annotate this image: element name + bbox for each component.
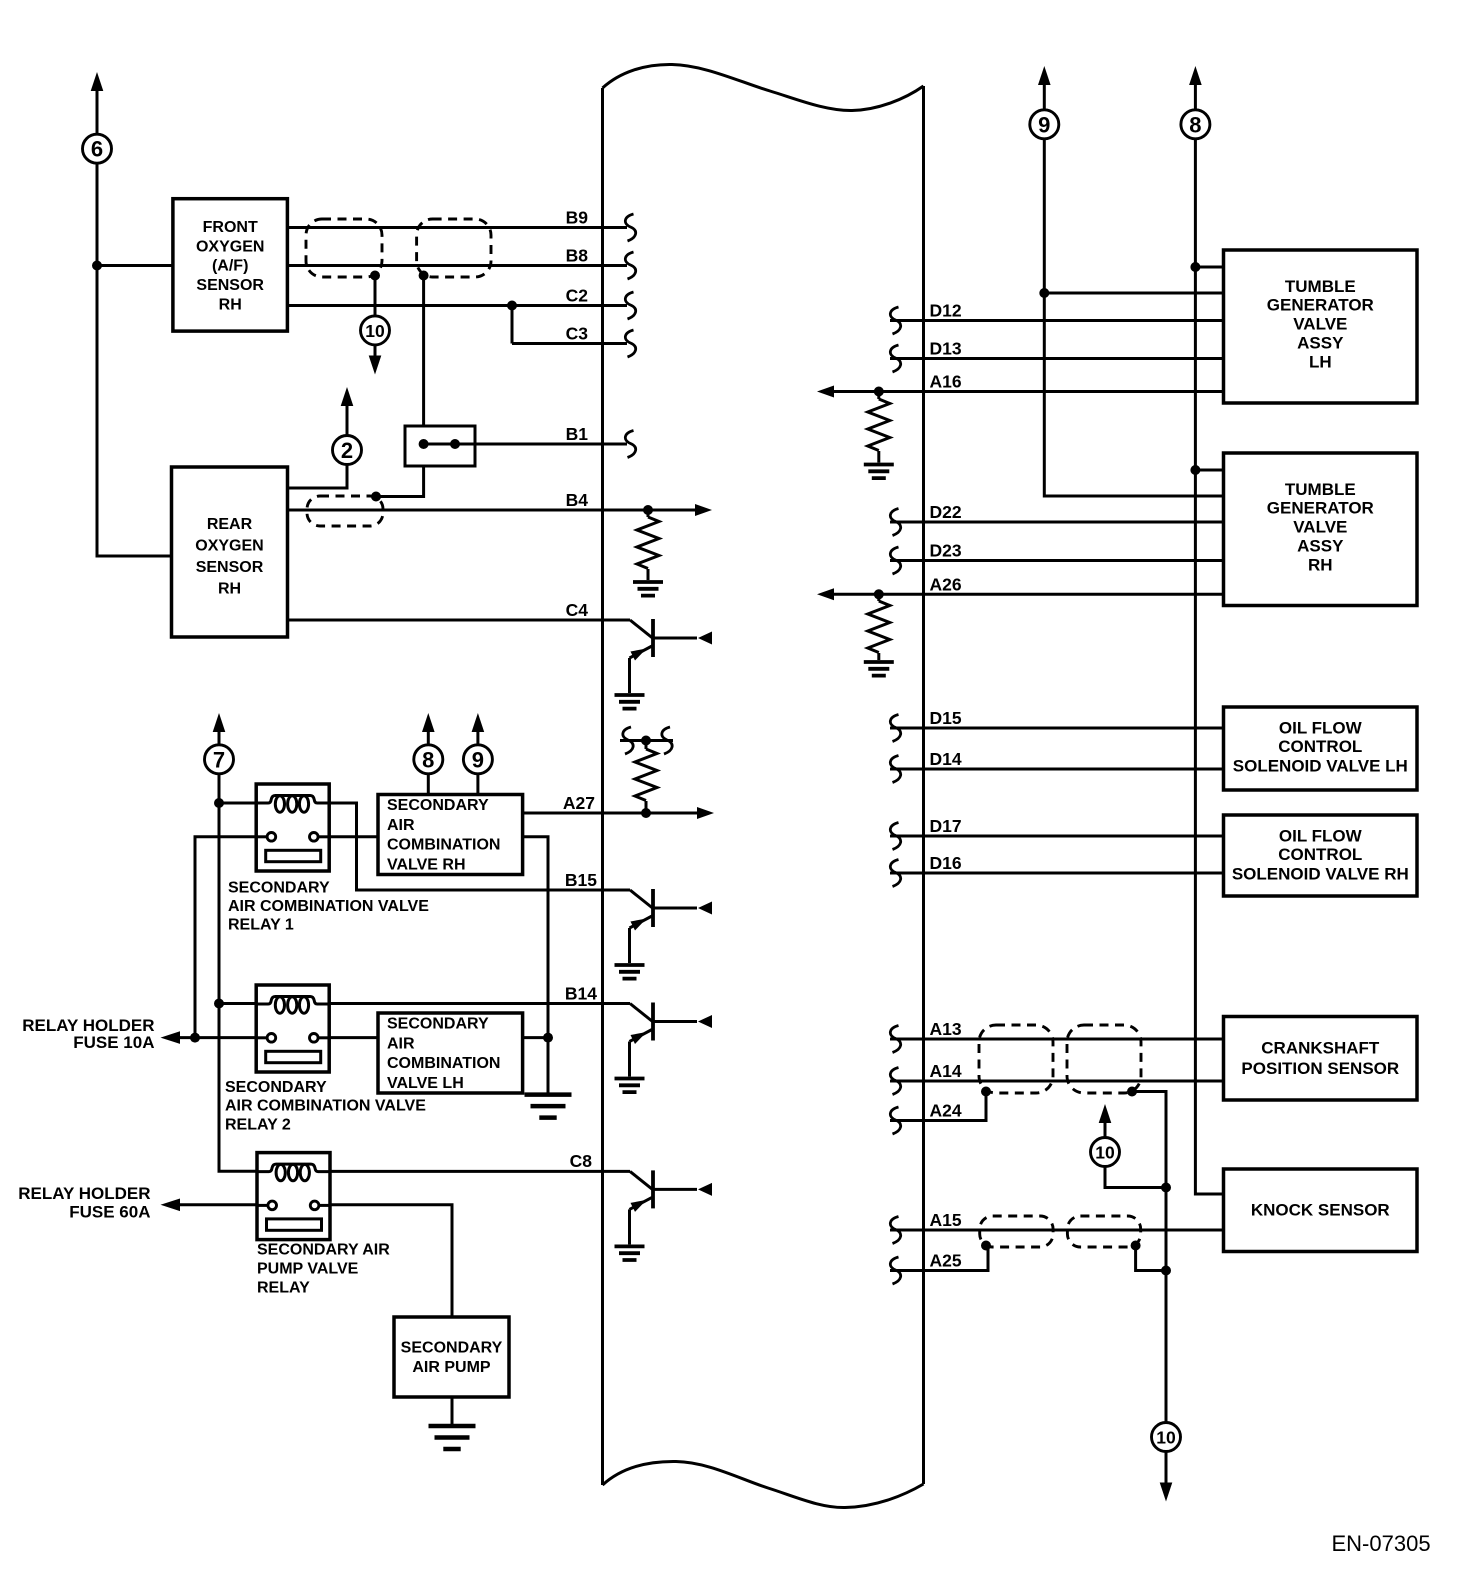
wire D14 bbox=[890, 768, 1224, 771]
wire A15 shield to drain line bbox=[1136, 1246, 1166, 1271]
svg-text:AIR COMBINATION VALVE: AIR COMBINATION VALVE bbox=[228, 898, 429, 915]
wire circle 9 to tumble valves bbox=[1044, 139, 1223, 496]
svg-text:D17: D17 bbox=[930, 816, 962, 836]
svg-text:VALVE RH: VALVE RH bbox=[387, 857, 466, 874]
reference circle 8 right bbox=[1181, 110, 1210, 139]
shield ellipse 2 over A15 bbox=[1067, 1216, 1140, 1247]
shield ellipse 1 over A13/A14 bbox=[979, 1025, 1053, 1093]
arrow to sheet 6 bbox=[91, 72, 104, 91]
resistor B4 pull-down bbox=[637, 517, 659, 569]
svg-text:B9: B9 bbox=[566, 208, 589, 228]
component box SECONDARY AIR PUMP bbox=[394, 1317, 509, 1397]
wire fuse 60A to relay 3 contact bbox=[174, 1203, 257, 1206]
svg-text:OIL FLOW: OIL FLOW bbox=[1279, 718, 1363, 737]
reference circle 8 left bbox=[414, 745, 443, 774]
ground B4 resistor bbox=[633, 582, 663, 596]
svg-text:TUMBLE: TUMBLE bbox=[1285, 277, 1356, 296]
svg-text:(A/F): (A/F) bbox=[212, 258, 248, 275]
svg-text:CONTROL: CONTROL bbox=[1278, 845, 1362, 864]
ground A26 resistor bbox=[864, 662, 894, 676]
ECM strip wavy top edge bbox=[603, 64, 924, 110]
wire A24 to shield bbox=[890, 1092, 986, 1121]
svg-text:10: 10 bbox=[1156, 1427, 1176, 1447]
wire circle 8 to valve RH bbox=[427, 774, 430, 795]
resistor A26 pull-down bbox=[868, 601, 890, 653]
wire relay 3 contact to air pump bbox=[330, 1205, 452, 1317]
svg-text:CRANKSHAFT: CRANKSHAFT bbox=[1261, 1038, 1380, 1057]
ECM connector strip right edge bbox=[922, 86, 925, 1484]
break symbol A25 bbox=[890, 1257, 900, 1284]
svg-text:B1: B1 bbox=[566, 424, 589, 444]
arrow A16 continues bbox=[817, 386, 834, 398]
shield ellipse 1 over B9/B8 bbox=[306, 219, 382, 277]
svg-text:RELAY 1: RELAY 1 bbox=[228, 917, 294, 934]
wire relay 1 contact to valve RH bbox=[329, 835, 378, 838]
svg-text:RH: RH bbox=[219, 296, 242, 313]
wire valve RH ground return bbox=[523, 837, 548, 1093]
junction A26 resistor bbox=[874, 589, 884, 599]
internal supply rail bbox=[620, 739, 673, 742]
svg-text:A27: A27 bbox=[563, 793, 595, 813]
wire D16 bbox=[890, 872, 1224, 875]
wire A14 bbox=[890, 1080, 1224, 1083]
break symbol D12 bbox=[890, 307, 900, 334]
wire to relay 1 coil bbox=[219, 802, 256, 805]
wire above circle 9 right bbox=[1043, 83, 1046, 110]
shield 1 drain junction bbox=[370, 271, 380, 281]
arrow to relay holder fuse 60A bbox=[161, 1199, 181, 1212]
svg-text:REAR: REAR bbox=[207, 516, 253, 533]
break symbol C3 bbox=[625, 330, 635, 357]
junction shield drain tap bbox=[1161, 1183, 1171, 1193]
wire shield 2 drain to joint connector bbox=[422, 276, 425, 427]
svg-text:9: 9 bbox=[472, 747, 484, 772]
svg-text:A26: A26 bbox=[930, 574, 962, 594]
svg-text:SOLENOID VALVE LH: SOLENOID VALVE LH bbox=[1233, 757, 1408, 776]
shield drain junction A15 right bbox=[1131, 1241, 1141, 1251]
junction front oxygen feed bbox=[92, 261, 102, 271]
reference circle 7 bbox=[205, 745, 234, 774]
break symbol D22 bbox=[890, 509, 900, 536]
wire D23 bbox=[890, 559, 1224, 562]
svg-text:SECONDARY: SECONDARY bbox=[225, 1079, 327, 1096]
ECM connector strip left edge bbox=[601, 88, 604, 1485]
break symbol A15 bbox=[890, 1217, 900, 1244]
transistor driver B15 bbox=[603, 889, 713, 979]
arrow A27 continues bbox=[697, 807, 714, 819]
reference circle 9 right bbox=[1030, 110, 1059, 139]
shield ellipse over B4 bbox=[307, 496, 383, 526]
svg-text:A13: A13 bbox=[930, 1019, 962, 1039]
ground valves bbox=[525, 1095, 572, 1118]
svg-text:C2: C2 bbox=[566, 286, 589, 306]
svg-text:C4: C4 bbox=[566, 600, 589, 620]
svg-text:D15: D15 bbox=[930, 708, 962, 728]
break symbol C2 bbox=[625, 292, 635, 319]
reference circle 10 (shield ground) bbox=[361, 316, 390, 345]
wire A25 to shield bbox=[890, 1246, 988, 1271]
wire D17 bbox=[890, 835, 1224, 838]
shield ellipse 2 over B9/B8 bbox=[417, 219, 491, 277]
junction shield drain A15 bbox=[1161, 1266, 1171, 1276]
break symbol D14 bbox=[890, 756, 900, 783]
wire to front oxygen sensor left pin bbox=[97, 264, 173, 267]
reference circle 10 mid bbox=[1091, 1138, 1120, 1167]
junction A27 resistor bbox=[641, 808, 651, 818]
shield drain junction A15 left bbox=[981, 1241, 991, 1251]
wire circle6 to rear oxygen sensor bbox=[97, 163, 172, 556]
svg-text:D12: D12 bbox=[930, 301, 962, 321]
wire above circle 8 bbox=[427, 730, 430, 745]
wire C3 bbox=[512, 342, 627, 345]
wire to relay 2 coil bbox=[219, 1002, 256, 1005]
wire rear oxygen to circle 2 bbox=[288, 464, 348, 488]
svg-text:8: 8 bbox=[1189, 112, 1201, 137]
svg-text:D23: D23 bbox=[930, 541, 962, 561]
svg-text:OXYGEN: OXYGEN bbox=[196, 238, 264, 255]
junction tumble RH feed 8 bbox=[1190, 465, 1200, 475]
break symbol D16 bbox=[890, 860, 900, 887]
wire A27 bbox=[523, 812, 700, 815]
joint connector dot left bbox=[419, 439, 429, 449]
svg-text:FUSE 60A: FUSE 60A bbox=[69, 1203, 150, 1222]
ECM strip wavy bottom edge bbox=[603, 1461, 924, 1507]
component box TUMBLE GENERATOR VALVE ASSY RH bbox=[1224, 453, 1418, 606]
svg-text:B4: B4 bbox=[566, 490, 589, 510]
joint connector dot right bbox=[450, 439, 460, 449]
break symbol D13 bbox=[890, 345, 900, 372]
break symbol D15 bbox=[890, 715, 900, 742]
wire A26 bbox=[831, 593, 1224, 596]
svg-text:10: 10 bbox=[365, 321, 385, 341]
svg-text:AIR: AIR bbox=[387, 1035, 415, 1052]
svg-text:A24: A24 bbox=[930, 1101, 962, 1121]
junction rail bbox=[641, 736, 651, 746]
svg-text:ASSY: ASSY bbox=[1297, 334, 1344, 353]
joint connector box B1 bbox=[405, 426, 475, 466]
svg-text:OIL FLOW: OIL FLOW bbox=[1279, 826, 1363, 845]
svg-text:C3: C3 bbox=[566, 324, 589, 344]
svg-text:RH: RH bbox=[218, 580, 241, 597]
wire above circle 7 bbox=[218, 730, 221, 745]
wire C2 to C3 bbox=[511, 306, 514, 344]
wire below circle 10 bbox=[374, 345, 377, 361]
wire B4 bbox=[288, 509, 699, 512]
svg-text:VALVE LH: VALVE LH bbox=[387, 1075, 464, 1092]
wire D12 bbox=[890, 319, 1224, 322]
svg-text:GENERATOR: GENERATOR bbox=[1267, 296, 1374, 315]
wire to tumble LH pin 2 bbox=[1044, 292, 1223, 295]
wire relay 1 contact to fuse 10A bbox=[195, 837, 256, 1038]
svg-text:A25: A25 bbox=[930, 1251, 962, 1271]
transistor driver B14 bbox=[603, 1003, 713, 1093]
shield drain junction A13/A14 right bbox=[1127, 1087, 1137, 1097]
stub resistor to A27 bbox=[645, 801, 648, 813]
reference circle 2 bbox=[333, 436, 362, 465]
B4 shield drain junction bbox=[371, 492, 381, 502]
svg-text:PUMP VALVE: PUMP VALVE bbox=[257, 1261, 359, 1278]
relay SECONDARY AIR COMBINATION VALVE RELAY 1 bbox=[256, 784, 329, 871]
wire A16 bbox=[831, 390, 1224, 393]
stub A26 resistor bbox=[877, 594, 880, 601]
resistor A16 pull-down bbox=[868, 399, 890, 451]
stub A16 resistor to ground bbox=[877, 451, 880, 463]
svg-text:8: 8 bbox=[422, 747, 434, 772]
arrow B4 continues bbox=[695, 504, 712, 516]
svg-text:FRONT: FRONT bbox=[203, 219, 258, 236]
stub rail resistor bbox=[645, 741, 648, 750]
reference circle 6 bbox=[83, 134, 112, 163]
wire to tumble RH pin 1 bbox=[1195, 469, 1223, 472]
break symbol B1 bbox=[625, 431, 635, 458]
svg-text:RELAY 2: RELAY 2 bbox=[225, 1116, 291, 1133]
svg-text:VALVE: VALVE bbox=[1293, 518, 1347, 537]
svg-text:C8: C8 bbox=[570, 1151, 593, 1171]
svg-text:AIR: AIR bbox=[387, 817, 415, 834]
break symbol B8 bbox=[625, 252, 635, 279]
svg-text:10: 10 bbox=[1095, 1142, 1115, 1162]
component box OIL FLOW CONTROL SOLENOID VALVE RH bbox=[1224, 815, 1418, 896]
break symbol D23 bbox=[890, 547, 900, 574]
shield drain junction A13/A14 left bbox=[981, 1087, 991, 1097]
svg-text:A14: A14 bbox=[930, 1061, 962, 1081]
svg-text:TUMBLE: TUMBLE bbox=[1285, 480, 1356, 499]
arrow to sheet 10 bbox=[369, 356, 382, 375]
junction fuse 10A feed bbox=[190, 1033, 200, 1043]
shield ellipse 1 over A15 bbox=[980, 1216, 1053, 1247]
component box FRONT OXYGEN (A/F) SENSOR RH bbox=[173, 199, 288, 331]
junction tumble LH feed 8 bbox=[1190, 262, 1200, 272]
stub A16 resistor bbox=[877, 392, 880, 400]
break symbol A24 bbox=[890, 1107, 900, 1134]
arrow to sheet 8 right bbox=[1189, 66, 1202, 85]
wire air pump to ground bbox=[451, 1397, 454, 1424]
transistor driver C4 bbox=[603, 619, 713, 709]
component box SECONDARY AIR COMBINATION VALVE RH bbox=[378, 795, 523, 875]
svg-text:SOLENOID VALVE RH: SOLENOID VALVE RH bbox=[1232, 865, 1409, 884]
wire relay 3 coil to C8 bbox=[330, 1170, 603, 1173]
break symbol rail right bbox=[662, 727, 672, 754]
arrow to sheet 7 bbox=[213, 713, 226, 732]
stub B4 resistor to ground bbox=[647, 569, 650, 580]
wire A15 bbox=[890, 1229, 1224, 1232]
wire fuse 10A to relay 2 contact bbox=[174, 1036, 256, 1039]
arrow A26 continues bbox=[817, 588, 834, 600]
svg-text:RELAY HOLDER: RELAY HOLDER bbox=[18, 1184, 150, 1203]
svg-text:SECONDARY: SECONDARY bbox=[228, 879, 330, 896]
svg-text:2: 2 bbox=[341, 438, 353, 463]
svg-text:B14: B14 bbox=[565, 984, 597, 1004]
relay SECONDARY AIR PUMP VALVE RELAY bbox=[257, 1153, 330, 1240]
component box SECONDARY AIR COMBINATION VALVE LH bbox=[378, 1013, 523, 1093]
wire shield to circle 10 bottom bbox=[1132, 1092, 1166, 1423]
svg-text:SENSOR: SENSOR bbox=[196, 559, 264, 576]
svg-text:SENSOR: SENSOR bbox=[196, 277, 264, 294]
wire relay 2 coil to B14 bbox=[329, 1002, 602, 1005]
svg-text:D14: D14 bbox=[930, 749, 962, 769]
wire inside joint connector bbox=[424, 443, 455, 446]
wire A13 bbox=[890, 1038, 1224, 1041]
junction A16 resistor bbox=[874, 387, 884, 397]
svg-text:OXYGEN: OXYGEN bbox=[195, 538, 263, 555]
wire circle 8 to knock sensor bbox=[1195, 139, 1223, 1194]
svg-text:B8: B8 bbox=[566, 246, 589, 266]
wire C2 bbox=[287, 304, 627, 307]
stub A26 resistor to ground bbox=[877, 653, 880, 660]
shield ellipse 2 over A13/A14 bbox=[1067, 1025, 1141, 1093]
junction C2/C3 bbox=[507, 301, 517, 311]
wire B8 bbox=[287, 264, 627, 267]
wire B1 bbox=[455, 443, 627, 446]
svg-text:CONTROL: CONTROL bbox=[1278, 737, 1362, 756]
transistor driver C8 bbox=[603, 1170, 713, 1260]
ground A16 resistor bbox=[864, 465, 894, 479]
svg-text:B15: B15 bbox=[565, 870, 597, 890]
junction relay 2 coil feed bbox=[214, 999, 224, 1009]
break symbol D17 bbox=[890, 823, 900, 850]
svg-text:COMBINATION: COMBINATION bbox=[387, 1055, 500, 1072]
component box KNOCK SENSOR bbox=[1224, 1169, 1418, 1252]
arrow to sheet 2 bbox=[341, 387, 354, 406]
break symbol A13 bbox=[890, 1026, 900, 1053]
svg-text:AIR PUMP: AIR PUMP bbox=[412, 1359, 491, 1376]
shield 2 drain junction bbox=[419, 271, 429, 281]
svg-text:SECONDARY: SECONDARY bbox=[387, 1016, 489, 1033]
wire above circle 8 right bbox=[1194, 83, 1197, 110]
junction B4 pull resistor bbox=[643, 505, 653, 515]
component box REAR OXYGEN SENSOR RH bbox=[172, 467, 288, 637]
svg-text:SECONDARY: SECONDARY bbox=[401, 1340, 503, 1357]
arrow to sheet 10 mid bbox=[1099, 1104, 1112, 1123]
svg-text:POSITION SENSOR: POSITION SENSOR bbox=[1241, 1059, 1399, 1078]
component box OIL FLOW CONTROL SOLENOID VALVE LH bbox=[1224, 707, 1418, 790]
svg-text:ASSY: ASSY bbox=[1297, 537, 1344, 556]
svg-text:6: 6 bbox=[91, 137, 103, 162]
arrow to sheet 9 bbox=[472, 713, 485, 732]
wire above circle 2 bbox=[346, 404, 349, 436]
wire circle 9 to valve RH bbox=[476, 774, 479, 795]
wire valve LH to ground node bbox=[523, 1036, 548, 1039]
break symbol A14 bbox=[890, 1068, 900, 1095]
svg-text:GENERATOR: GENERATOR bbox=[1267, 499, 1374, 518]
stub B4 resistor bbox=[647, 510, 650, 517]
component box TUMBLE GENERATOR VALVE ASSY LH bbox=[1224, 250, 1418, 403]
wire above circle 9 bbox=[476, 730, 479, 745]
ground air pump bbox=[429, 1426, 476, 1449]
svg-text:D13: D13 bbox=[930, 339, 962, 359]
svg-text:EN-07305: EN-07305 bbox=[1332, 1531, 1431, 1556]
svg-text:A16: A16 bbox=[930, 372, 962, 392]
component box CRANKSHAFT POSITION SENSOR bbox=[1224, 1017, 1418, 1101]
svg-text:LH: LH bbox=[1309, 353, 1332, 372]
svg-text:VALVE: VALVE bbox=[1293, 315, 1347, 334]
wire D15 bbox=[890, 727, 1224, 730]
svg-text:KNOCK SENSOR: KNOCK SENSOR bbox=[1251, 1200, 1390, 1219]
wire relay 2 contact to valve LH bbox=[329, 1036, 378, 1039]
reference circle 9 left bbox=[463, 745, 492, 774]
svg-text:SECONDARY AIR: SECONDARY AIR bbox=[257, 1242, 390, 1259]
svg-text:COMBINATION: COMBINATION bbox=[387, 837, 500, 854]
break symbol rail left bbox=[623, 727, 633, 754]
junction tumble LH feed 9 bbox=[1039, 288, 1049, 298]
arrow to relay holder fuse 10A bbox=[161, 1031, 181, 1044]
wire above circle 10 mid bbox=[1104, 1122, 1107, 1138]
wire relay 1 coil to B15 bbox=[329, 803, 602, 890]
reference circle 10 bottom bbox=[1152, 1423, 1181, 1452]
wire joint connector to B4 shield bbox=[376, 466, 424, 497]
svg-text:D22: D22 bbox=[930, 502, 962, 522]
svg-text:D16: D16 bbox=[930, 853, 962, 873]
wire to circle 10 mid bbox=[1105, 1167, 1166, 1188]
resistor A27 pull-up bbox=[635, 749, 657, 801]
wire below circle 10 bottom bbox=[1165, 1452, 1168, 1489]
svg-text:A15: A15 bbox=[930, 1210, 962, 1230]
arrow to sheet 10 bottom bbox=[1160, 1483, 1173, 1502]
junction relay 1 coil feed bbox=[214, 798, 224, 808]
junction valve ground return bbox=[543, 1033, 553, 1043]
svg-text:SECONDARY: SECONDARY bbox=[387, 797, 489, 814]
wire shield drain to circle 10 bbox=[374, 276, 377, 316]
svg-text:7: 7 bbox=[213, 747, 225, 772]
wire C4 bbox=[288, 619, 603, 622]
svg-text:FUSE 10A: FUSE 10A bbox=[73, 1033, 154, 1052]
arrow to sheet 9 right bbox=[1038, 66, 1051, 85]
svg-text:9: 9 bbox=[1038, 112, 1050, 137]
wire to tumble LH pin 1 bbox=[1195, 266, 1223, 269]
arrow to sheet 8 bbox=[422, 713, 435, 732]
wire to circle 6 bbox=[96, 89, 99, 135]
wire D22 bbox=[890, 521, 1224, 524]
wire D13 bbox=[890, 357, 1224, 360]
break symbol B9 bbox=[625, 214, 635, 241]
wire circle 7 relay feed bbox=[219, 774, 257, 1172]
svg-text:RELAY: RELAY bbox=[257, 1280, 310, 1297]
relay SECONDARY AIR COMBINATION VALVE RELAY 2 bbox=[256, 985, 329, 1072]
svg-text:AIR COMBINATION VALVE: AIR COMBINATION VALVE bbox=[225, 1098, 426, 1115]
svg-text:RH: RH bbox=[1308, 556, 1333, 575]
wire B9 bbox=[287, 226, 627, 229]
